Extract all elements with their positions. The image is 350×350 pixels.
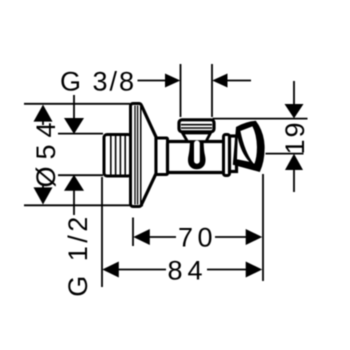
dim 70 line right segment	[215, 236, 249, 238]
dim 70 left extension line	[132, 218, 134, 247]
handle stem	[230, 136, 237, 172]
dia 54 arrow up-pointing	[34, 105, 53, 122]
dia 54 arrow down-pointing	[34, 187, 53, 204]
dim 84 line left segment	[115, 269, 166, 271]
handle knob	[233, 121, 265, 172]
dia 54 dim line top stub	[42, 120, 44, 125]
svg-text:84: 84	[168, 256, 208, 286]
G 3/8 left extension line	[180, 64, 182, 117]
dim 19 top reference line	[213, 118, 308, 120]
valve threaded pipe G 1/2	[104, 135, 131, 177]
dia 54 bottom extension line	[24, 204, 143, 206]
valve body cylinder	[168, 142, 229, 173]
svg-text:G 1/2: G 1/2	[63, 213, 93, 297]
valve wall flange plate	[131, 104, 142, 207]
svg-text:70: 70	[178, 223, 217, 253]
G 1/2 upper leader tail	[73, 95, 75, 119]
flange cone	[142, 106, 157, 205]
cap nut inner line lower	[181, 127, 212, 129]
G 3/8 arrow right-pointing	[165, 74, 180, 88]
svg-text:19: 19	[280, 120, 310, 154]
dim 19 arrow up-pointing	[285, 154, 303, 170]
dim 19 arrow down-pointing	[285, 104, 304, 118]
handle knob lower white facet	[237, 138, 249, 162]
G 1/2 lower leader tail	[73, 190, 75, 215]
flange inner lines	[135, 106, 138, 205]
G 1/2 arrow up-pointing	[64, 175, 84, 191]
G 3/8 right tail line	[226, 80, 251, 82]
body end cap ring	[224, 135, 230, 176]
dim 70-84 right extension line	[262, 174, 264, 281]
G 3/8 arrow left-pointing	[212, 74, 227, 88]
G 1/2 bottom extension line	[58, 174, 103, 176]
dim 70 arrow right-pointing	[246, 229, 263, 245]
dim 84 arrow left-pointing	[102, 262, 119, 278]
outlet cap nut G 3/8	[179, 120, 214, 132]
dim 84 left extension line	[101, 177, 103, 287]
G 3/8 leader line	[138, 80, 168, 82]
svg-text:G 3/8: G 3/8	[60, 67, 136, 97]
svg-text:Ø54: Ø54	[31, 115, 61, 187]
dim 84 arrow right-pointing	[246, 262, 263, 278]
dim 84 line right segment	[207, 269, 249, 271]
neck ring	[156, 138, 168, 175]
dim 70 line left segment	[146, 236, 176, 238]
outlet collar	[183, 133, 211, 142]
dim 70 arrow left-pointing	[133, 229, 150, 245]
G 1/2 arrow down-pointing	[64, 118, 84, 134]
dim 19 lower tail	[293, 169, 295, 192]
dia 54 dim line bottom stub	[42, 185, 44, 189]
outlet tube with olive bulge	[188, 142, 206, 170]
G 3/8 right extension line	[211, 64, 213, 117]
pipe thread lines	[111, 136, 125, 175]
dim 19 bottom reference line	[266, 153, 304, 155]
outlet tube inner slot	[194, 141, 200, 164]
dim 19 upper tail	[293, 81, 295, 106]
dia 54 top extension line	[24, 103, 130, 105]
handle knob upper white facet	[240, 126, 257, 163]
G 1/2 top extension line	[58, 133, 103, 135]
cap nut inner line upper	[181, 124, 212, 126]
